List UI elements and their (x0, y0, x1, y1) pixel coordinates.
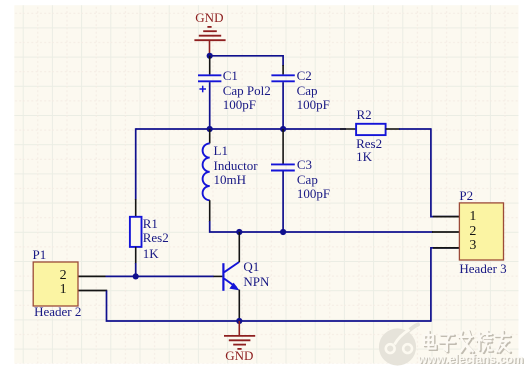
pin number P1-1 (50, 283, 67, 297)
node: middle junction right (280, 126, 286, 132)
pin number P2-1 (469, 210, 476, 224)
wire R2 to corner (399, 128, 431, 130)
watermark url (418, 352, 523, 366)
label C1 value 100pF (223, 98, 256, 112)
transistor Q1 base pin (214, 275, 223, 277)
wire mid-left corner down to R1 (135, 128, 137, 200)
wire bottom-middle horizontal to P2 pin 2 (238, 231, 433, 233)
label C2 value 100pF (297, 98, 330, 112)
header P2 box (459, 203, 503, 260)
label Q1 (243, 260, 259, 274)
wire middle horizontal (136, 128, 346, 130)
transistor Q1 emitter pin (238, 290, 240, 321)
inductor L1 pin 2 (209, 200, 211, 222)
resistor R2 pin 2 (386, 128, 400, 130)
resistor R2 pin 1 (340, 128, 356, 130)
resistor R1 pin 1 (135, 199, 137, 217)
label P2 type Header 3 (459, 262, 506, 276)
watermark text 电子发烧友 (424, 330, 511, 353)
label L1 (214, 144, 228, 158)
label R2 (357, 108, 372, 122)
wire R1 to base wire (135, 263, 137, 276)
resistor R1 pin 2 (135, 247, 137, 264)
label R2 value 1K (356, 150, 372, 164)
node: top junction (207, 53, 213, 59)
node: C3 bottom junction (280, 229, 286, 235)
capacitor C3 (271, 164, 295, 170)
label L1 value 10mH (214, 173, 247, 187)
capacitor C3 pin 1 (282, 129, 284, 164)
node: base junction (133, 273, 139, 279)
label C2 (297, 69, 312, 83)
header P1 pin 2 lead (78, 275, 106, 277)
transistor Q1 collector pin (238, 232, 240, 262)
label C1 (223, 69, 238, 83)
label R1 value 1K (143, 247, 159, 261)
label GND bottom (225, 349, 253, 363)
label C2 value Cap (297, 84, 318, 98)
label R1 value Res2 (143, 231, 169, 245)
wire L1 bottom corner (210, 221, 240, 232)
label L1 value Inductor (214, 159, 258, 173)
label Q1 type NPN (243, 275, 269, 289)
header P2 pin 1 lead (433, 216, 459, 218)
label P1 (33, 248, 47, 262)
label C3 (297, 158, 312, 172)
header P1 pin 1 lead (78, 290, 107, 292)
label P2 (459, 189, 473, 203)
resistor R1 (130, 217, 142, 247)
pin number P2-3 (469, 239, 476, 253)
pin number P2-2 (469, 225, 476, 239)
wire bottom to P2 pin 3 (431, 248, 460, 322)
wire P1 pin1 riser (107, 291, 431, 322)
label C3 value Cap (297, 173, 318, 187)
transistor Q1 (223, 262, 239, 291)
node: emitter junction (236, 318, 242, 324)
inductor L1 pin 1 (209, 129, 211, 143)
resistor R2 (356, 124, 386, 135)
watermark logo (379, 325, 418, 366)
header P2 pin 2 lead (432, 231, 459, 233)
label R1 (143, 217, 158, 231)
label R2 value Res2 (356, 137, 382, 151)
header P1 box (33, 262, 78, 306)
inductor L1 (203, 143, 210, 200)
node: Q1 collector junction (236, 229, 242, 235)
capacitor C1 pin 1 (209, 56, 211, 75)
capacitor C1 (198, 75, 221, 92)
wire top horizontal (210, 55, 283, 57)
ground GND (bottom) (224, 321, 255, 349)
label GND top (195, 11, 223, 25)
capacitor C2 pin 1 (282, 65, 284, 74)
capacitor C2 (271, 75, 294, 81)
ground GND (top) (194, 27, 225, 56)
wire C2 top riser (282, 55, 284, 66)
pin number P1-2 (50, 269, 67, 283)
label P1 type Header 2 (34, 305, 81, 319)
capacitor C3 pin 2 (282, 171, 284, 232)
header P2 pin 3 lead (433, 247, 459, 249)
label C1 value Cap Pol2 (223, 84, 271, 98)
capacitor C1 pin 2 / wire down (209, 82, 211, 129)
capacitor C2 pin 2 / wire down (282, 82, 284, 129)
wire base horizontal (106, 275, 214, 277)
node: middle junction left (207, 126, 213, 132)
wire R2 to P2 pin 1 (431, 128, 460, 216)
label C3 value 100pF (297, 187, 330, 201)
